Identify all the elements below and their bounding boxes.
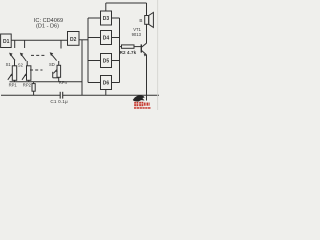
- ground stub from D6: [105, 90, 107, 96]
- svg-text:D2: D2: [70, 37, 77, 43]
- svg-text:SD: SD: [49, 62, 55, 67]
- resistor R1: [32, 82, 35, 96]
- wire stub to switch SD: [60, 40, 62, 48]
- wire to D5 input: [88, 60, 101, 62]
- svg-text:B: B: [139, 18, 142, 23]
- switch SD: [49, 52, 59, 67]
- svg-text:(D1 - D6): (D1 - D6): [36, 24, 59, 30]
- wire D4 output: [112, 37, 120, 39]
- inverter D1: [1, 34, 12, 48]
- svg-text:D6: D6: [103, 81, 110, 87]
- wire D1 output to D2 input: [11, 39, 67, 41]
- svg-text:S1: S1: [6, 62, 12, 67]
- wire rail to speaker: [146, 3, 148, 16]
- wire D6 output: [112, 82, 120, 84]
- watermark logo: [133, 95, 151, 109]
- wire R2 to base: [134, 46, 141, 48]
- wire to D4 input: [88, 37, 101, 39]
- input bus: [87, 18, 89, 83]
- svg-text:R2 4.7k: R2 4.7k: [120, 50, 137, 55]
- page edge smudge: [157, 0, 159, 110]
- svg-text:D5: D5: [103, 59, 110, 65]
- wiper bus wire: [10, 81, 83, 83]
- svg-text:RPn: RPn: [59, 80, 68, 85]
- wire D3 output: [112, 17, 120, 19]
- switch S2: [18, 53, 27, 68]
- wire to D6 input: [88, 82, 101, 84]
- potentiometer RP1: [8, 66, 18, 88]
- VDD stub from D3: [105, 3, 107, 11]
- svg-text:D3: D3: [103, 16, 110, 22]
- bottom rail right of C1: [63, 94, 159, 96]
- svg-text:RP2: RP2: [23, 82, 32, 87]
- svg-text:S2: S2: [18, 63, 24, 68]
- IC label IC:CD4069 (D1-D6): [34, 18, 63, 29]
- inverter D5: [101, 54, 112, 68]
- wire D2 output: [79, 39, 88, 41]
- bottom rail left of C1: [1, 94, 60, 96]
- svg-text:C1 0.1μ: C1 0.1μ: [50, 99, 68, 104]
- inverter D4: [101, 31, 112, 45]
- svg-text:RP1: RP1: [9, 82, 18, 87]
- emitter wire to bottom rail: [146, 55, 148, 101]
- speaker B: [139, 12, 153, 27]
- svg-text:D4: D4: [103, 36, 110, 42]
- inverter D3: [101, 11, 112, 25]
- output bus: [119, 18, 121, 83]
- potentiometer RP2: [22, 66, 32, 88]
- dashed gang link upper: [31, 54, 45, 56]
- feedback wire to bottom rail: [81, 40, 83, 96]
- wire stub to switch S1: [14, 40, 16, 48]
- wire stub to switch S2: [24, 40, 26, 48]
- wire bus to R2: [120, 46, 122, 48]
- switch S1: [6, 53, 15, 67]
- potentiometer RPn: [53, 65, 68, 85]
- capacitor C1 0.1u: [50, 92, 68, 104]
- dashed gang link lower: [30, 69, 43, 71]
- inverter D6: [101, 76, 112, 90]
- top supply rail: [106, 2, 147, 4]
- resistor R2 4.7k: [120, 45, 137, 55]
- svg-text:D1: D1: [3, 39, 10, 45]
- wire speaker to collector: [146, 24, 148, 43]
- svg-text:9013: 9013: [132, 32, 142, 37]
- wire D5 output: [112, 60, 120, 62]
- inverter D2: [68, 32, 80, 46]
- transistor VT1 9013: [132, 27, 147, 56]
- wire to D3 input: [88, 17, 101, 19]
